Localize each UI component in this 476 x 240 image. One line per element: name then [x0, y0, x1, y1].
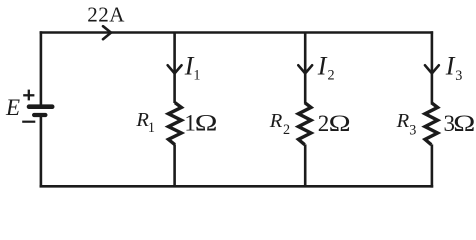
wire branch 2 lower: [304, 144, 307, 186]
svg-text:2: 2: [283, 122, 290, 138]
svg-text:1: 1: [148, 120, 155, 136]
value 2 ohm: [318, 110, 351, 136]
svg-text:I: I: [445, 51, 456, 80]
battery E long plate: [29, 104, 52, 109]
current arrow I2: [298, 65, 312, 73]
wire branch 2 upper: [304, 33, 307, 104]
wire left above battery: [40, 31, 43, 105]
label I1: [184, 51, 201, 83]
svg-text:R: R: [269, 110, 283, 132]
svg-text:Ω: Ω: [195, 110, 218, 135]
svg-text:Ω: Ω: [329, 110, 351, 136]
battery plus sign: [23, 90, 34, 101]
resistor R2 zigzag: [298, 103, 311, 145]
svg-text:R: R: [396, 110, 410, 132]
current arrow on top wire: [103, 26, 111, 39]
label R3: [396, 110, 417, 139]
battery E short plate: [34, 113, 45, 117]
resistor R1 zigzag: [168, 103, 181, 145]
svg-text:1: 1: [193, 68, 200, 84]
wire branch 1 lower: [173, 144, 176, 186]
svg-text:22A: 22A: [87, 2, 125, 26]
wire left below battery: [40, 116, 43, 188]
current arrow I1: [168, 65, 182, 73]
value 3 ohm: [444, 110, 476, 136]
svg-text:3: 3: [409, 123, 416, 139]
wire bottom: [40, 185, 434, 188]
svg-text:I: I: [317, 51, 328, 80]
wire branch 3 upper (right side): [431, 31, 434, 103]
svg-text:Ω: Ω: [453, 110, 475, 136]
svg-text:3: 3: [455, 68, 462, 84]
label I3: [445, 51, 462, 84]
svg-text:2: 2: [318, 111, 330, 136]
resistor R3 zigzag: [425, 103, 438, 145]
label R2: [269, 110, 290, 138]
svg-text:2: 2: [328, 68, 335, 84]
label R1: [135, 109, 155, 136]
wire branch 3 lower (right side): [431, 144, 434, 187]
current arrow I3: [425, 65, 439, 73]
battery minus sign: [22, 121, 35, 123]
svg-text:E: E: [5, 95, 20, 120]
label I2: [317, 51, 335, 83]
value 1 ohm: [184, 110, 217, 135]
wire branch 1 upper: [173, 33, 176, 104]
wire top from battery branch to R3 branch: [40, 31, 434, 34]
